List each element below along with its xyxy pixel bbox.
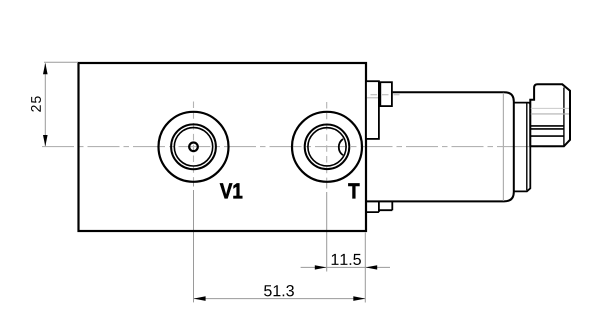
dim 11.5 dimension line <box>301 266 390 268</box>
node V1 vertical centerline <box>193 102 195 184</box>
label V1 <box>220 184 242 199</box>
dim 25 extension line top <box>44 61 78 63</box>
nut internal line 4 <box>531 128 564 130</box>
extension line block right edge <box>364 233 366 303</box>
mounting tab B below coil <box>379 201 392 210</box>
dim 51.3 text <box>264 285 294 296</box>
nut internal line 2 <box>531 113 569 115</box>
port T counterbore ring inner <box>308 128 346 166</box>
extension line V1 (below circle to dim) <box>193 183 195 302</box>
port V1 counterbore ring outer <box>171 124 216 169</box>
port T counterbore ring outer <box>305 125 350 170</box>
nut internal line 3 <box>531 125 564 127</box>
dim 11.5 arrow right <box>315 265 327 269</box>
dim 51.3 dimension line <box>194 298 366 300</box>
dim 25 dimension line <box>44 64 46 147</box>
retaining ring <box>514 103 531 192</box>
dim 25 arrow down <box>43 135 48 146</box>
connector centerline dashes <box>371 94 400 96</box>
flange inner line <box>367 97 378 99</box>
dim 51.3 arrow right <box>353 296 365 301</box>
coil body <box>366 92 514 201</box>
dim 25 text <box>31 96 41 111</box>
mounting tab A below coil <box>366 201 379 212</box>
port V1 outer boss circle <box>159 112 229 182</box>
connector box on coil <box>380 82 392 106</box>
port V1 counterbore ring inner <box>174 128 212 166</box>
extension line T (below circle to dim) <box>326 183 328 272</box>
coil end cap line <box>502 93 504 201</box>
nut chamfer edge <box>563 88 565 147</box>
end nut <box>530 84 570 146</box>
nut internal line 1 <box>531 107 569 109</box>
dim 51.3 arrow left <box>194 296 206 301</box>
port V1 center hole <box>189 143 198 152</box>
valve block outline <box>79 63 367 231</box>
dim 25 arrow up <box>43 63 48 74</box>
dim 11.5 text <box>332 254 361 265</box>
horizontal centerline <box>42 146 556 148</box>
port T outer boss circle <box>292 112 362 182</box>
valve block body fill <box>79 63 367 231</box>
dim 11.5 arrow left <box>366 265 378 269</box>
port T side hole arc <box>339 139 343 155</box>
nut internal line 5 <box>531 135 564 137</box>
label T <box>348 184 359 199</box>
retaining ring inner edge <box>526 103 528 190</box>
node T vertical centerline <box>326 102 328 183</box>
cartridge flange <box>366 81 379 139</box>
